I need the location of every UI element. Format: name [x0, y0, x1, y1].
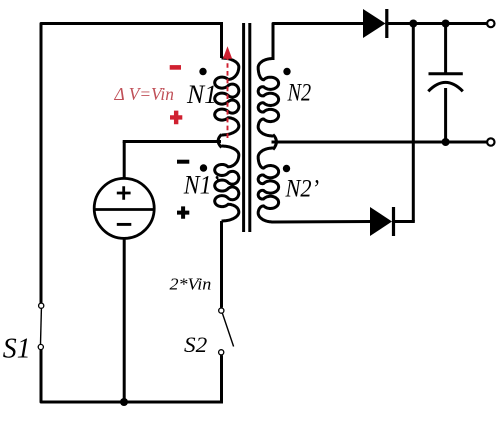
- wire: secondary top rail to diode: [273, 24, 363, 59]
- black plus (N1' polarity): [177, 206, 189, 218]
- wire: center tap to transformer: [124, 140, 219, 143]
- junction dot middle rail: [442, 138, 450, 146]
- wire: left rail lower and bottom rail: [41, 351, 222, 403]
- junction dot bottom rail: [120, 398, 128, 406]
- switch S1 top contact: [39, 303, 44, 308]
- wire: secondary winding junction link: [273, 135, 276, 150]
- wire: left rail and top rail: [41, 24, 222, 304]
- capacitor C1 curved plate: [428, 82, 463, 91]
- switch S1 bottom contact: [38, 344, 43, 349]
- phase dot N1': [200, 164, 207, 171]
- winding N1' (primary lower): [215, 146, 239, 221]
- diode D2 triangle: [370, 207, 392, 236]
- wire: S2 bottom lead: [220, 355, 223, 402]
- junction dot top rail 2: [442, 20, 450, 28]
- phase dot N2': [283, 165, 290, 172]
- source V1 circle: [94, 178, 154, 238]
- red flux arrow dashed line: [227, 57, 229, 138]
- wire: middle rail to output: [273, 141, 487, 144]
- wire: primary bottom stub to S2: [220, 221, 223, 308]
- svg-text:N1: N1: [186, 80, 217, 109]
- wire: primary winding junction link: [218, 135, 221, 148]
- winding N2 (secondary upper): [258, 59, 278, 137]
- red flux arrowhead: [223, 46, 232, 59]
- capacitor C1 bottom lead: [444, 88, 447, 142]
- diode D1 triangle: [363, 9, 386, 38]
- wire: D2 cathode to vertical: [394, 220, 414, 223]
- svg-text:N2’: N2’: [285, 175, 319, 202]
- winding N2' (secondary lower): [258, 148, 278, 222]
- wire: primary top stub: [220, 24, 223, 59]
- svg-text:S1: S1: [3, 334, 31, 365]
- svg-text:2*Vin: 2*Vin: [170, 275, 212, 294]
- svg-text:Δ V=Vin: Δ V=Vin: [114, 84, 174, 104]
- wire: D1 cathode to output: [387, 22, 488, 25]
- switch S2 bottom contact: [219, 350, 224, 355]
- capacitor C1 top plate: [429, 72, 463, 75]
- winding N1 (primary upper): [215, 58, 239, 135]
- svg-text:N2: N2: [287, 80, 312, 107]
- switch S2 blade (open): [222, 313, 233, 347]
- switch S1 blade: [40, 309, 43, 345]
- diode D1 cathode bar: [385, 9, 388, 38]
- transformer T1 core line left: [242, 23, 245, 232]
- source V1 plus: [117, 186, 131, 200]
- wire: secondary bottom to diode D2: [273, 220, 370, 224]
- output terminal top: [487, 20, 494, 27]
- source V1 minus: [117, 223, 132, 226]
- capacitor C1 top lead: [444, 24, 447, 74]
- svg-text:S2: S2: [184, 333, 207, 357]
- phase dot N1: [199, 68, 206, 75]
- wire: source bottom lead: [123, 238, 126, 402]
- wire: vertical D2 to top rail: [412, 24, 415, 222]
- switch S2 top contact: [219, 308, 224, 313]
- diode D2 cathode bar: [392, 207, 395, 236]
- svg-text:N1’: N1’: [183, 171, 219, 200]
- black minus (N1' polarity): [177, 160, 189, 164]
- source V1 diameter line: [94, 208, 154, 211]
- wire: source top lead: [123, 142, 126, 179]
- junction dot top rail 1: [409, 20, 417, 28]
- red minus annotation: [170, 65, 181, 70]
- red plus annotation: [170, 111, 182, 125]
- phase dot N2: [283, 68, 290, 75]
- transformer T1 core line right: [248, 23, 251, 232]
- output terminal middle: [487, 138, 494, 145]
